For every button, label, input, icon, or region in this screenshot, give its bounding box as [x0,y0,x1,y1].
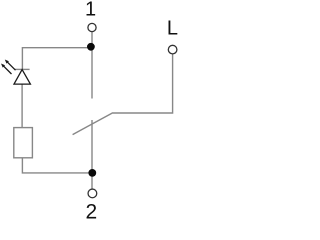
svg-text:2: 2 [85,200,97,220]
svg-text:L: L [167,18,178,40]
svg-text:1: 1 [85,0,96,20]
